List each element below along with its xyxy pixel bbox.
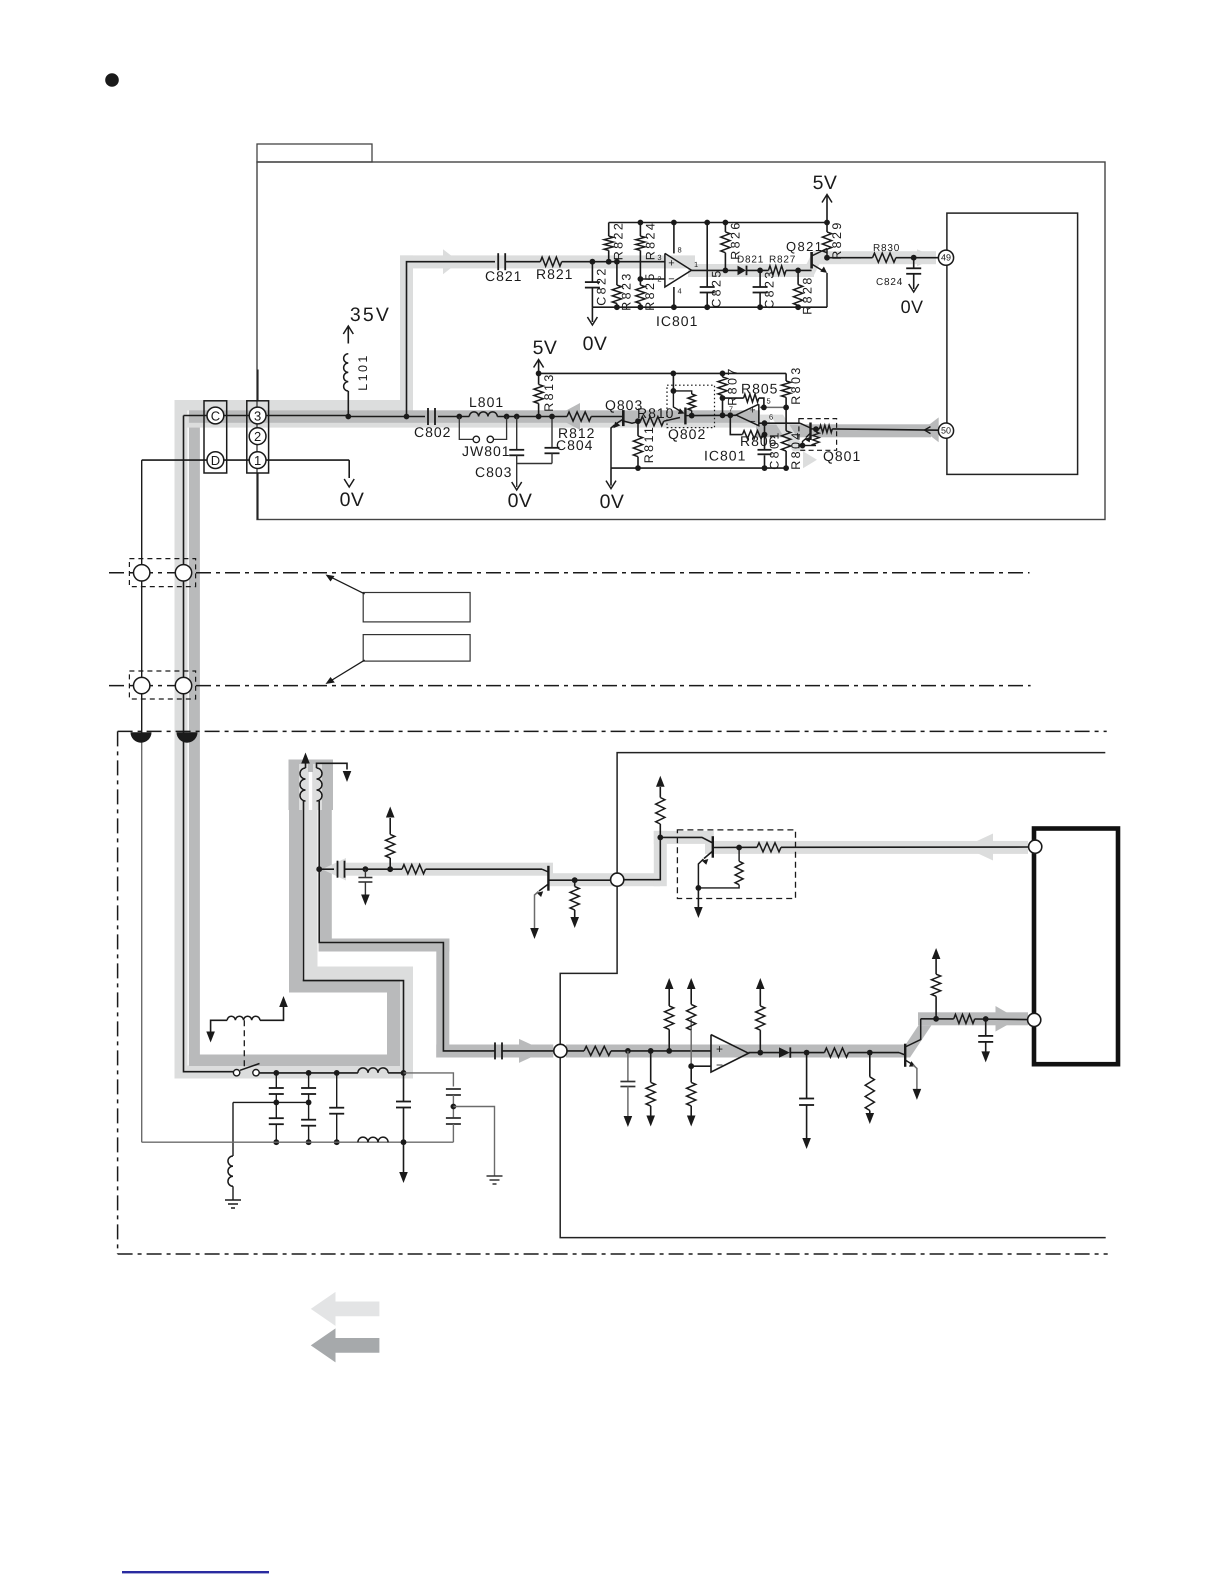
node circle on box edge upper (611, 873, 624, 886)
svg-text:1: 1 (694, 260, 698, 269)
resistor R829 (826, 223, 828, 232)
wire R821 to op-amp (562, 261, 665, 263)
connector shell 321 (247, 401, 269, 473)
svg-text:R827: R827 (769, 255, 796, 266)
svg-text:4: 4 (678, 287, 682, 296)
series resistor upper branch (402, 865, 426, 874)
resistor R807 (722, 373, 724, 377)
capacitor C803 (516, 417, 518, 450)
svg-text:0V: 0V (508, 490, 533, 512)
pin circle upper path (1029, 840, 1042, 853)
capacitor C825 (706, 223, 708, 288)
filter top rail (259, 1072, 358, 1074)
highlight band: PB jog toward transformer left leg (289, 980, 400, 993)
highlight band: PB path along filter rail (189, 1055, 400, 1067)
label callout box 1 (363, 593, 470, 622)
top main box (257, 162, 1105, 520)
wire to pin 50 (832, 429, 938, 430)
inner box right (head amp block) (947, 213, 1078, 474)
svg-text:R824: R824 (644, 221, 658, 260)
svg-text:R807: R807 (726, 366, 740, 405)
svg-text:0V: 0V (340, 489, 365, 511)
mid boundary dash-dot line 1 (109, 572, 1030, 574)
filter mid link to L (233, 1101, 309, 1103)
svg-text:R830: R830 (873, 243, 900, 254)
resistor R822 (608, 223, 610, 237)
svg-text:0V: 0V (600, 491, 625, 513)
svg-text:C801: C801 (768, 430, 782, 469)
series resistor after node (584, 1046, 611, 1055)
highlight band: REC top path vertical riser (400, 255, 413, 416)
footer rule (122, 1571, 269, 1573)
collector wire to pin (921, 1018, 954, 1020)
wire R812 to Q803 (591, 416, 623, 418)
highlight band: REC upper lower-path to dashed box (654, 831, 714, 844)
svg-text:Q801: Q801 (823, 448, 861, 464)
right branch to earth (453, 1107, 494, 1177)
svg-text:35V: 35V (350, 304, 391, 326)
svg-text:R813: R813 (542, 372, 556, 411)
right branch caps (446, 1088, 461, 1090)
lower main line (567, 1050, 584, 1052)
op-amp lower (711, 1035, 749, 1073)
dashed box Q801 (799, 419, 837, 451)
resistor R804 (782, 431, 791, 451)
svg-text:R803: R803 (789, 365, 803, 404)
wire Q802 to op-amp (692, 414, 736, 416)
rail to right branch (404, 1073, 454, 1087)
highlight band: PB transformer right leg (319, 810, 332, 952)
pin 50 (938, 423, 953, 438)
output wire lower op-amp (749, 1052, 780, 1054)
pin circle lower path (1028, 1013, 1041, 1026)
highlight band: REC path along filter rail (175, 1066, 414, 1079)
switch (233, 1070, 239, 1076)
wire minus input (640, 278, 665, 280)
transistor in dashed box (712, 836, 714, 858)
svg-text:R821: R821 (536, 266, 573, 282)
connector pin D (207, 452, 224, 469)
resistor up near pin (935, 996, 937, 1019)
resistor R825 (639, 279, 641, 285)
band arrowhead: REC from pin leftward (964, 834, 993, 861)
0V arrow lower rail (610, 468, 612, 486)
capacitor C801 (764, 435, 766, 450)
highlight band: REC above main connector line (175, 400, 414, 410)
capacitor after diode (806, 1053, 808, 1099)
stub above connector (257, 370, 259, 401)
transformer right top wire and arrow (317, 763, 348, 769)
connector pin 1 (249, 452, 266, 469)
5V arrow lower (538, 361, 540, 373)
highlight band: PB jog up right of filter (387, 980, 400, 1067)
output wire op-amp to Q821 (692, 269, 738, 271)
connector pin C (207, 407, 224, 424)
top box tab (257, 144, 372, 162)
lower rail 0V (611, 467, 786, 469)
resistor R805 (723, 397, 744, 399)
wire connector C to main line (184, 415, 349, 417)
bottom rail 0V side (592, 306, 827, 308)
transistor Q821 (810, 252, 813, 269)
svg-text:L801: L801 (469, 394, 504, 410)
svg-text:8: 8 (678, 246, 682, 255)
mid connector circles row 2 (129, 671, 195, 699)
svg-text:2: 2 (657, 275, 661, 284)
bottom rail inductor (358, 1137, 388, 1142)
highlight band: REC path vertical at left connector (175, 400, 188, 1079)
svg-text:R828: R828 (801, 275, 815, 314)
svg-text:49: 49 (941, 253, 951, 263)
highlight band: REC upper lower-path long run to pin (705, 841, 1028, 854)
transformer right leg wire (319, 801, 492, 1051)
series resistor near pin (954, 1014, 975, 1023)
lower section dash-dot boundary (118, 730, 1107, 732)
band arrowhead: PB lower main into node (519, 1039, 545, 1063)
filter column 1 caps (275, 1073, 277, 1088)
main line from connector to Q803 (348, 416, 425, 418)
relay dashed link (243, 1020, 245, 1066)
wire jog to dashed transistor (660, 837, 713, 843)
inductor L801 (469, 412, 497, 417)
top rail 5V side (609, 222, 827, 224)
band arrowhead: REC top path right (443, 249, 459, 274)
band arrowhead: REC upper lower-path leftward (322, 858, 346, 881)
C803-C804 link and 0V (517, 463, 552, 465)
resistor R830 (873, 253, 896, 262)
resistor R826 (724, 223, 726, 232)
label callout box 2 (363, 635, 470, 662)
svg-text:R825: R825 (643, 271, 657, 310)
svg-text:IC801: IC801 (704, 448, 746, 464)
resistor R827 (769, 266, 787, 275)
highlight band: transformer block (289, 760, 334, 811)
svg-text:Q821: Q821 (786, 239, 823, 254)
svg-text:C825: C825 (710, 268, 724, 307)
inductor to earth left (232, 1102, 234, 1156)
diode lower path (779, 1047, 790, 1057)
svg-text:C822: C822 (595, 266, 609, 305)
resistor down at 575 (574, 880, 576, 886)
stub below connector to box bottom (257, 473, 259, 520)
svg-text:R805: R805 (741, 381, 778, 397)
highlight band: PB main lower line left of node (436, 1045, 553, 1058)
plus input wire (759, 406, 786, 408)
svg-text:R829: R829 (830, 220, 844, 259)
minus output wire to Q801 (759, 422, 800, 424)
wire Q821 to pin 49 (827, 257, 873, 259)
svg-text:C821: C821 (485, 268, 522, 284)
transformer T: left coil (300, 768, 306, 801)
5V arrow top (826, 196, 828, 223)
resistor up-down chain at 691 (690, 1019, 692, 1030)
svg-text:−: − (716, 1058, 723, 1072)
resistor up at output (759, 1030, 761, 1053)
resistor R824 (639, 223, 641, 237)
bullet (105, 73, 119, 87)
connector pin 2 (249, 428, 266, 445)
direction chevron near pin 50 (925, 427, 931, 434)
relay coil (227, 1016, 260, 1020)
resistor R803 (785, 373, 787, 381)
transformer left leg wire (304, 801, 404, 1101)
svg-text:5V: 5V (533, 337, 558, 359)
diode D821 (738, 266, 747, 276)
resistor R828 (797, 270, 799, 284)
dashed box upper transistor (677, 830, 795, 899)
svg-text:R826: R826 (729, 220, 743, 259)
down arrow from dashed box (697, 888, 699, 907)
transistor Q801 (800, 423, 811, 428)
band arrowhead: PB lower into pin (996, 1006, 1019, 1032)
5V rail lower (539, 372, 787, 374)
svg-text:Q802: Q802 (668, 426, 706, 442)
transistor upper-left (547, 866, 549, 891)
wire 0V drop from pin 1 (348, 460, 350, 478)
highlight band: PB jog up at output transistor (897, 1025, 932, 1057)
feedback R806 (730, 415, 742, 434)
highlight band: REC top path horizontal (400, 255, 695, 268)
svg-text:C803: C803 (475, 464, 512, 480)
lower inner solid box outline (560, 753, 1105, 1238)
svg-text:3: 3 (657, 253, 661, 262)
wire collector to output (713, 846, 757, 848)
upper branch junction (316, 866, 322, 872)
legend arrow PB (311, 1328, 380, 1362)
highlight band: REC upper lower-path left run (344, 863, 553, 876)
filter bottom rail (142, 1141, 454, 1143)
capacitor C824 (913, 258, 915, 269)
svg-text:−: − (749, 416, 755, 428)
35V supply arrow (347, 328, 349, 344)
svg-text:D: D (211, 453, 220, 468)
resistor up at 669 (668, 1029, 670, 1051)
svg-text:R812: R812 (558, 425, 595, 441)
wire connector D row (142, 459, 350, 461)
resistor with up arrow at jog (656, 798, 665, 825)
series resistor mid (824, 1048, 848, 1057)
svg-text:7: 7 (729, 405, 733, 414)
resistor inside dashed box (738, 848, 740, 862)
svg-text:−: − (668, 274, 674, 286)
gray cap to ground after node (627, 1051, 629, 1082)
capacitor near pin (985, 1019, 987, 1036)
svg-text:6: 6 (769, 413, 773, 422)
svg-text:C802: C802 (414, 424, 451, 440)
leader arrow to line 2 (328, 660, 365, 682)
svg-text:1: 1 (254, 453, 261, 468)
dotted box Q802 (667, 385, 715, 427)
node circle lower (554, 1044, 567, 1057)
highlight band: REC upper lower-path up jog (654, 831, 667, 886)
band arrowhead: REC under Q801 (803, 451, 817, 468)
wire node to up-jog (624, 837, 661, 879)
op-amp IC801a (665, 253, 692, 287)
series capacitor upper branch (337, 861, 339, 878)
svg-text:+: + (716, 1042, 723, 1056)
svg-text:R811: R811 (642, 425, 656, 464)
band arrowhead: REC into pin 49 (917, 249, 936, 266)
capacitor C804 (551, 417, 553, 448)
svg-text:C: C (211, 408, 220, 423)
svg-text:R823: R823 (620, 271, 634, 310)
svg-text:JW801: JW801 (462, 443, 511, 459)
transistor Q803 (622, 410, 625, 426)
highlight band: PB path top jog from transformer (319, 939, 450, 952)
grommet bumps at lower boundary (131, 732, 152, 743)
series resistor on output wire (757, 843, 781, 852)
riser wire to top path (407, 262, 496, 417)
legend arrow REC (311, 1292, 380, 1326)
vertical through filter with cap (403, 1100, 405, 1103)
capacitor C802 (427, 408, 429, 425)
series resistor Q801 output (811, 428, 820, 430)
resistor R810 (640, 417, 663, 426)
svg-text:R810: R810 (637, 405, 674, 421)
resistor to ground at 870 (869, 1053, 871, 1077)
svg-text:3: 3 (254, 408, 261, 423)
pin 49 (938, 250, 953, 265)
resistor R823 (616, 262, 618, 285)
op-amp IC801b mirrored (736, 404, 759, 426)
highlight band: PB path vertical at left connector (189, 410, 200, 1066)
filter rail inductor (358, 1068, 388, 1073)
connector shell CD (204, 401, 227, 473)
svg-text:5: 5 (767, 397, 771, 406)
band arrowhead: PB main line leftward (555, 403, 580, 430)
mid connector circles row 1 (129, 559, 195, 587)
inductor L101 (344, 354, 349, 391)
highlight band: PB main lower line right of node (566, 1045, 905, 1058)
wire transistor to node circle (548, 879, 610, 881)
resistor to ground at 650 (650, 1051, 652, 1083)
transformer T: right coil (317, 768, 323, 801)
capacitor C822 (591, 262, 593, 282)
0V arrow below C822 (591, 307, 593, 322)
highlight band: PB main connector line (189, 410, 760, 423)
svg-text:50: 50 (941, 426, 951, 436)
filter column 2 caps (308, 1073, 310, 1088)
svg-text:C823: C823 (763, 269, 777, 308)
series cap lower main line (492, 1050, 495, 1052)
transistor Q802 (672, 373, 674, 391)
highlight band: PB line into pin 50 (756, 424, 931, 437)
svg-text:IC801: IC801 (656, 313, 698, 329)
output transistor lower (904, 1044, 906, 1067)
thick head-amp box (1034, 829, 1118, 1065)
wire C821 to R821 (505, 261, 540, 263)
resistor R811 (637, 421, 639, 436)
highlight band: REC path jog toward transformer (305, 967, 414, 980)
jumper JW801 (459, 417, 472, 440)
highlight band: REC path up-jog right of filter (400, 967, 414, 1079)
resistor R813 (538, 373, 540, 384)
svg-text:5V: 5V (813, 172, 838, 194)
svg-text:R822: R822 (612, 221, 626, 260)
wire D-line vertical to filter bottom rail (141, 460, 143, 742)
capacitor to ground upper branch (364, 869, 366, 877)
mid boundary dash-dot line 2 (109, 685, 1031, 687)
transformer left top arrow (305, 765, 307, 768)
resistor up with arrow upper branch (389, 858, 391, 869)
leader arrow to line 1 (328, 576, 365, 594)
svg-text:0V: 0V (583, 333, 608, 355)
connector pin 3 (249, 407, 266, 424)
svg-text:0V: 0V (901, 297, 924, 317)
resistor R812 (567, 412, 591, 421)
svg-text:C824: C824 (876, 277, 903, 288)
op-amp power wires (673, 223, 675, 254)
svg-text:2: 2 (254, 429, 261, 444)
highlight band: PB transformer left leg (289, 810, 302, 980)
resistor R821 (540, 257, 561, 266)
wire C-line vertical to lower section switch (184, 416, 234, 1072)
filter column 3 cap (336, 1073, 338, 1108)
svg-text:L101: L101 (356, 353, 370, 390)
highlight band: REC along main connector line (183, 415, 770, 428)
highlight band: REC path between transformer legs (305, 764, 318, 980)
capacitor C821 (497, 253, 499, 270)
highlight band: PB path down jog to main line (436, 939, 449, 1058)
band arrowhead: PB into pin 50 (923, 417, 939, 442)
capacitor C823 (759, 270, 761, 287)
svg-text:+: + (668, 257, 674, 269)
highlight band: REC upper lower-path mid run (548, 873, 660, 886)
band: REC dive under Q801 (770, 415, 806, 452)
svg-text:+: + (749, 405, 755, 417)
